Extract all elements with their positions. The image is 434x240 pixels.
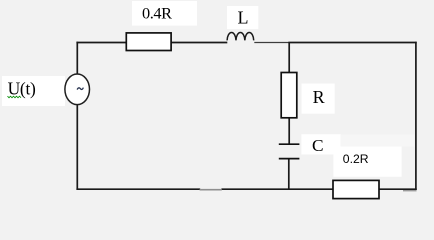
label box 0.4R [132,1,197,26]
resistor R body [281,73,297,118]
voltage source U1 circle [65,74,90,105]
svg-text:C: C [312,136,324,155]
capacitor C top plate [279,143,300,145]
svg-text:0.2R: 0.2R [343,152,369,166]
wire bottom horizontal [76,188,200,190]
capacitor C bottom plate [279,158,300,160]
wire branch junction to R top [288,43,290,73]
wire bottom horizontal right part [221,188,416,190]
wire left vertical lower (source bottom to bottom wire) [76,104,78,189]
resistor 0.4R body [126,33,171,51]
svg-text:0.4R: 0.4R [142,4,172,23]
wire right vertical [415,42,417,190]
label box U(t) [2,76,65,106]
wire junction to top-right corner [288,42,416,44]
label box 0.2R [333,147,401,177]
wire top-left horizontal (source corner to 0.4R) [76,42,126,44]
wire 0.4R to inductor [171,42,227,44]
wire capacitor bottom plate to bottom wire [288,159,290,190]
wire R bottom to capacitor top plate [288,118,290,144]
wire left vertical upper (corner down to source top) [76,42,78,75]
wire inductor to junction (gray) [254,42,289,44]
svg-text:U(t): U(t) [8,78,36,98]
inductor L coil [227,32,254,40]
svg-text:L: L [238,8,249,28]
label box C [301,134,340,154]
resistor 0.2R body [333,180,379,198]
label box L [227,6,258,29]
svg-text:R: R [313,87,325,107]
wire bottom gray overlap right [403,190,417,192]
voltage source tilde symbol [77,88,83,90]
wire bottom gray overlap left [200,189,222,191]
label box R [302,84,335,114]
light band right of C label [341,135,415,147]
spellcheck squiggle under U [8,96,22,98]
